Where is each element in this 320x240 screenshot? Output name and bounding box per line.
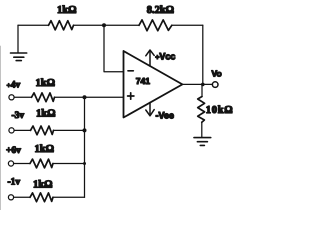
terminal Vo xyxy=(212,82,218,88)
svg-text:1kΩ: 1kΩ xyxy=(36,78,56,89)
minus input sign xyxy=(128,70,133,72)
resistor R7 1k (row 4) xyxy=(30,193,53,202)
wire node down to inverting input xyxy=(104,25,124,71)
ground (output, bottom-right) xyxy=(194,138,211,146)
svg-text:+6v: +6v xyxy=(6,146,21,156)
svg-text:Vo: Vo xyxy=(212,69,222,79)
wire R1 to node xyxy=(74,24,140,26)
svg-text:-Vee: -Vee xyxy=(156,111,175,121)
resistor R2 8.2k (feedback) xyxy=(139,20,172,31)
wire R2 to right vertical xyxy=(172,24,203,26)
svg-text:1kΩ: 1kΩ xyxy=(33,179,53,190)
node A junction dot xyxy=(102,23,106,27)
scan edge artifact left xyxy=(0,46,2,210)
wire feedback right vertical xyxy=(202,25,204,84)
svg-text:1kΩ: 1kΩ xyxy=(35,144,55,155)
wire R4 to noninverting input xyxy=(55,96,124,98)
op-amp U1 741 triangle xyxy=(124,51,183,118)
wire ground to R1 xyxy=(18,24,49,26)
output junction dot xyxy=(201,83,205,87)
bus junction dot row3 xyxy=(83,162,86,165)
-Vee arrow xyxy=(146,103,154,116)
wire R5 to bus xyxy=(54,129,85,131)
wire term3 to R6 xyxy=(14,163,30,165)
bus junction dot row1 xyxy=(83,95,87,99)
terminal input 3 (+6v) xyxy=(8,161,13,166)
terminal input 1 (+4v) xyxy=(9,95,14,100)
svg-text:8.2kΩ: 8.2kΩ xyxy=(147,5,174,16)
plus input sign xyxy=(128,93,134,99)
svg-text:1kΩ: 1kΩ xyxy=(36,109,56,120)
svg-text:+4v: +4v xyxy=(7,81,21,91)
ground (top-left) xyxy=(11,25,27,60)
svg-text:-3v: -3v xyxy=(12,111,25,121)
terminal input 4 (-1v) xyxy=(8,195,13,200)
wire R3 to ground xyxy=(201,122,203,137)
wire term4 to R7 xyxy=(14,196,30,198)
resistor R4 1k (row 1) xyxy=(32,93,55,102)
wire R7 to bus xyxy=(53,196,85,198)
resistor R3 10k (vertical) xyxy=(198,97,205,123)
svg-text:1kΩ: 1kΩ xyxy=(57,5,77,16)
terminal input 2 (-3v) xyxy=(9,128,14,133)
wire term1 to R4 xyxy=(14,96,31,98)
resistor R6 1k (row 3) xyxy=(30,159,53,168)
svg-text:741: 741 xyxy=(136,76,150,86)
svg-text:-1v: -1v xyxy=(8,178,21,188)
bus junction dot row2 xyxy=(83,128,87,132)
wire summing bus vertical xyxy=(84,97,86,197)
svg-text:+Vcc: +Vcc xyxy=(155,52,175,62)
resistor R5 1k (row 2) xyxy=(31,126,54,135)
+Vcc arrow xyxy=(146,50,154,66)
wire R6 to bus xyxy=(53,163,85,165)
output wire xyxy=(182,83,212,85)
resistor R1 1k (top) xyxy=(49,21,74,30)
wire output node to R3 xyxy=(201,84,203,96)
wire term2 to R5 xyxy=(14,129,30,131)
svg-text:10kΩ: 10kΩ xyxy=(206,105,234,116)
